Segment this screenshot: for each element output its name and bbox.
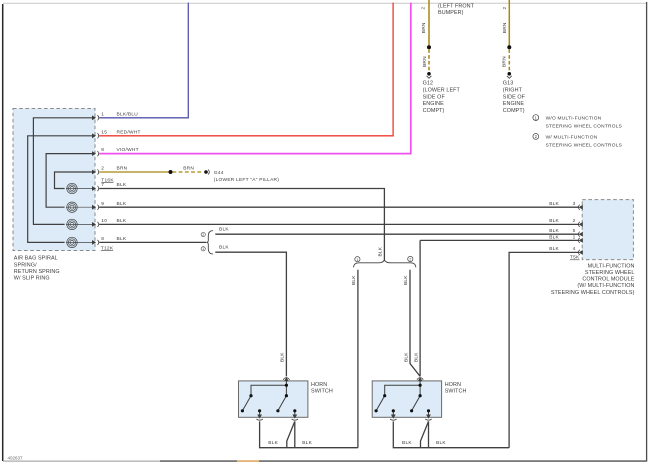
wire BLK pin 8 to variant split	[99, 236, 206, 242]
internal wire pin8 to spiral 2	[46, 154, 93, 208]
svg-text:BLK: BLK	[280, 352, 286, 362]
air bag spiral spring label	[14, 256, 60, 282]
svg-text:2: 2	[573, 218, 576, 224]
circled 2 at riser 2	[408, 256, 413, 261]
svg-text:BRN: BRN	[422, 56, 428, 67]
svg-text:BRN: BRN	[421, 22, 427, 33]
svg-text:BRN: BRN	[183, 166, 194, 172]
wire BLK module pin 1 to right horn switch	[420, 239, 579, 241]
svg-text:402637: 402637	[8, 455, 24, 460]
legend note 1	[533, 115, 622, 130]
left horn switch top connector	[283, 378, 289, 381]
svg-text:BLK: BLK	[413, 352, 419, 362]
svg-text:SIDE OF: SIDE OF	[503, 94, 526, 100]
right horn switch box	[372, 381, 441, 417]
svg-text:HORN: HORN	[445, 382, 461, 388]
svg-text:8: 8	[101, 236, 104, 242]
under-brace split to ground risers	[354, 260, 416, 267]
left horn switch label	[311, 382, 333, 395]
svg-text:CONTROL MODULE: CONTROL MODULE	[582, 277, 634, 283]
svg-text:HORN: HORN	[311, 382, 327, 388]
svg-text:RETURN SPRING: RETURN SPRING	[14, 269, 60, 275]
svg-text:2: 2	[101, 166, 104, 172]
svg-text:1: 1	[356, 258, 358, 262]
svg-text:STEERING WHEEL: STEERING WHEEL	[585, 270, 635, 276]
ground riser variant 1 (to left horn switch ground run)	[357, 270, 359, 448]
left front bumper label	[438, 3, 475, 16]
svg-text:BLK: BLK	[549, 228, 559, 234]
variant split brace at pin 8 wire	[207, 231, 213, 255]
svg-text:W/ SLIP RING: W/ SLIP RING	[14, 276, 50, 282]
svg-text:(W/ MULTI-FUNCTION: (W/ MULTI-FUNCTION	[577, 283, 634, 289]
svg-text:BLK: BLK	[302, 440, 312, 446]
multi-function steering wheel control module box	[582, 200, 633, 260]
ground G44 label	[214, 170, 279, 183]
svg-text:BLK: BLK	[219, 245, 229, 251]
wire BLK/BLU pin 1	[99, 3, 188, 118]
right horn switch top connector	[417, 378, 423, 381]
svg-text:BLK: BLK	[402, 440, 412, 446]
connector pins on air bag box (arrow + socket), pins 1,15,8,2,7,9,10,8	[92, 115, 98, 245]
internal wire pin15 to spiral 4	[28, 136, 93, 243]
ground drop G13	[507, 0, 512, 78]
internal wire pin1 to spiral 3	[33, 118, 92, 225]
wire BRN pin 2 to G44	[99, 166, 170, 172]
legend note 2	[533, 134, 622, 149]
G12 label	[423, 81, 461, 115]
svg-text:1: 1	[573, 234, 576, 240]
T12K connector label	[101, 245, 114, 251]
circled 1 at split lower branch	[201, 247, 205, 252]
svg-text:BLK: BLK	[219, 227, 229, 233]
svg-text:SPRING/: SPRING/	[14, 262, 37, 268]
svg-text:G13: G13	[503, 81, 514, 87]
svg-text:10: 10	[101, 218, 107, 224]
left horn switch contact dots	[241, 384, 297, 413]
svg-text:BLK: BLK	[549, 218, 559, 224]
svg-text:5: 5	[573, 228, 576, 234]
right horn switch internals	[376, 381, 428, 417]
svg-text:BLK: BLK	[117, 182, 127, 188]
svg-text:(RIGHT: (RIGHT	[503, 87, 523, 93]
svg-text:(LEFT FRONT: (LEFT FRONT	[438, 3, 475, 9]
svg-text:1: 1	[202, 247, 204, 251]
svg-text:MULTI-FUNCTION: MULTI-FUNCTION	[588, 263, 635, 269]
ground drop G12	[427, 0, 432, 78]
ground G44 symbol	[204, 170, 209, 175]
spiral slip ring 4	[66, 237, 93, 247]
spiral slip ring 2	[66, 202, 93, 212]
svg-text:SIDE OF: SIDE OF	[423, 94, 446, 100]
svg-text:15: 15	[101, 129, 107, 135]
svg-text:BUMPER): BUMPER)	[438, 10, 464, 16]
wire BLK variant2 branch to module pin 5	[215, 227, 579, 235]
left horn switch internals	[242, 381, 294, 417]
svg-text:8: 8	[101, 147, 104, 153]
svg-text:BRN: BRN	[117, 166, 128, 172]
wire BLK pin 9 to module pin 3	[99, 201, 579, 207]
svg-text:AIR BAG SPIRAL: AIR BAG SPIRAL	[14, 256, 58, 262]
svg-text:BLK: BLK	[351, 275, 357, 285]
ground riser variant 2 (to right horn switch)	[410, 270, 420, 377]
svg-text:COMPT): COMPT)	[423, 108, 445, 114]
svg-text:RED/WHT: RED/WHT	[117, 129, 141, 135]
T5K connector label	[570, 255, 580, 261]
svg-text:BLK: BLK	[268, 440, 278, 446]
left horn ground wires	[260, 421, 358, 447]
svg-text:ENGINE: ENGINE	[503, 101, 525, 107]
module label	[551, 263, 635, 295]
svg-text:VIO/WHT: VIO/WHT	[117, 147, 139, 153]
circled 2 at split upper branch	[201, 233, 205, 238]
right horn switch contact dots	[375, 384, 431, 413]
svg-text:BLK: BLK	[117, 201, 127, 207]
circled 1 at riser 1	[355, 257, 360, 262]
right horn ground wires	[393, 421, 509, 447]
svg-text:STEERING WHEEL CONTROLS): STEERING WHEEL CONTROLS)	[551, 290, 635, 296]
pin numbers airbag connector	[101, 111, 107, 242]
svg-text:2: 2	[202, 233, 204, 237]
svg-text:COMPT): COMPT)	[503, 108, 525, 114]
svg-text:2: 2	[421, 7, 427, 10]
svg-text:(LOWER LEFT "A" PILLAR): (LOWER LEFT "A" PILLAR)	[214, 177, 279, 183]
svg-text:BLK: BLK	[436, 440, 446, 446]
svg-text:W/ MULTI-FUNCTION: W/ MULTI-FUNCTION	[546, 134, 598, 140]
left horn switch bottom connectors	[256, 415, 298, 420]
svg-text:STEERING WHEEL CONTROLS: STEERING WHEEL CONTROLS	[546, 124, 622, 130]
T16K connector label	[101, 177, 114, 183]
svg-text:BLK: BLK	[403, 275, 409, 285]
internal wire pin2 to spiral 1	[55, 172, 93, 189]
svg-text:BRN: BRN	[501, 56, 507, 67]
right horn switch bottom connectors	[390, 415, 432, 420]
svg-text:BLK: BLK	[117, 236, 127, 242]
svg-text:3: 3	[573, 201, 576, 207]
spiral slip ring 3	[66, 219, 93, 229]
svg-text:4: 4	[573, 246, 576, 252]
svg-text:2: 2	[502, 7, 508, 10]
splice dot on BRN wire	[169, 170, 173, 174]
air bag spiral spring component box	[13, 109, 95, 251]
svg-text:BLK: BLK	[549, 201, 559, 207]
wire RED/WHT pin 15	[99, 3, 393, 136]
svg-text:SWITCH: SWITCH	[311, 389, 333, 395]
spiral slip ring 1	[66, 183, 93, 193]
BLK labels under left horn switch	[268, 440, 312, 446]
wire BLK ground run to module pin 4	[509, 252, 579, 447]
svg-text:G12: G12	[423, 81, 434, 87]
wire BLK pin 7 to splice junction	[99, 182, 384, 260]
svg-text:G44: G44	[214, 170, 224, 176]
svg-text:BRN: BRN	[502, 22, 508, 33]
svg-text:W/O MULTI-FUNCTION: W/O MULTI-FUNCTION	[546, 116, 602, 122]
svg-text:2: 2	[409, 258, 411, 262]
svg-text:STEERING WHEEL CONTROLS: STEERING WHEEL CONTROLS	[546, 142, 622, 148]
svg-text:BLK/BLU: BLK/BLU	[117, 111, 139, 117]
svg-text:BLK: BLK	[377, 246, 383, 256]
svg-text:1: 1	[101, 111, 104, 117]
dashed BRN wire to G44	[173, 166, 204, 172]
svg-text:BLK: BLK	[117, 218, 127, 224]
module pin labels	[549, 201, 575, 252]
module connector pins 3,2,5,1,4	[578, 205, 582, 255]
svg-text:(LOWER LEFT: (LOWER LEFT	[423, 87, 461, 93]
wire BLK pin 10 to module pin 2	[99, 218, 579, 224]
svg-text:BLK: BLK	[403, 352, 409, 362]
right horn switch label	[445, 382, 467, 395]
svg-text:BLK: BLK	[549, 246, 559, 252]
G13 label	[503, 81, 526, 115]
BLK labels under right horn switch	[402, 440, 446, 446]
wire VIO/WHT pin 8	[99, 3, 411, 154]
svg-text:9: 9	[101, 201, 104, 207]
svg-text:ENGINE: ENGINE	[423, 101, 445, 107]
svg-text:SWITCH: SWITCH	[445, 389, 467, 395]
svg-text:BLK: BLK	[549, 234, 559, 240]
left horn switch box	[239, 381, 308, 417]
wire BLK variant1 branch to left horn switch	[215, 245, 286, 377]
